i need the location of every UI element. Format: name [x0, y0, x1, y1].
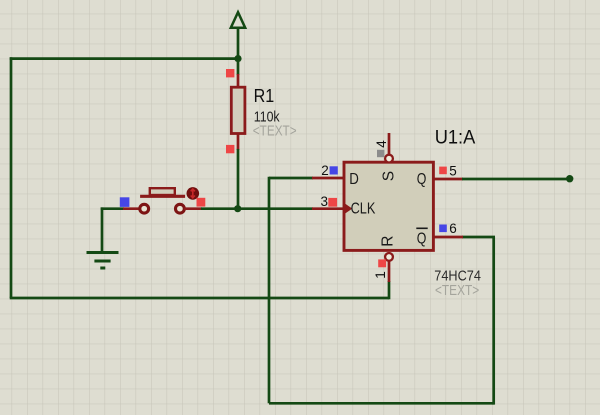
resistor R1 pin top: [237, 74, 240, 88]
resistor R1 pin bottom: [237, 134, 240, 151]
wire right loop vertical: [492, 237, 495, 405]
svg-text:R1: R1: [254, 86, 275, 106]
pin 6 Qbar stub: [433, 236, 463, 239]
svg-text:R: R: [379, 236, 396, 247]
wire R-pin vertical green segment: [388, 281, 391, 299]
state square red pin 1: [378, 259, 386, 267]
wire bottom loop horizontal: [269, 402, 494, 405]
button cap bar: [140, 195, 185, 198]
label Qbar overbar: [416, 227, 427, 229]
svg-text:<TEXT>: <TEXT>: [253, 122, 297, 139]
svg-text:2: 2: [321, 163, 329, 178]
state square red pin 3: [328, 198, 337, 207]
svg-text:CLK: CLK: [351, 201, 376, 218]
pin S bubble: [385, 155, 393, 163]
wire power vertical above junction: [237, 27, 240, 59]
button left pin: [123, 207, 141, 210]
ground symbol: [87, 253, 119, 269]
wire bottom-left horizontal to R pin: [10, 297, 389, 300]
wire button to CLK: [201, 207, 313, 210]
pin R bubble: [385, 253, 393, 261]
svg-text:<TEXT>: <TEXT>: [435, 282, 479, 299]
state square red at R1 top: [226, 69, 234, 77]
op-amp U1 body (74HC74 flip-flop): [344, 162, 433, 250]
wire R1 bottom to button row: [237, 149, 240, 209]
power symbol arrow: [231, 12, 245, 28]
pin 2 D stub: [312, 177, 344, 180]
svg-text:1: 1: [373, 271, 388, 279]
pin 5 Q stub: [433, 178, 463, 181]
node junction at power rail: [234, 55, 241, 62]
wire ground vertical drop: [101, 207, 104, 252]
svg-text:D: D: [349, 171, 359, 188]
svg-text:Q: Q: [417, 171, 427, 188]
button cap plunger: [150, 188, 175, 195]
button actuator arrow glyph: [191, 189, 195, 198]
CLK edge triangle: [344, 203, 352, 214]
svg-text:Q: Q: [417, 231, 427, 248]
svg-text:S: S: [381, 171, 398, 181]
svg-text:3: 3: [320, 194, 328, 209]
svg-text:4: 4: [374, 140, 389, 148]
pin 3 CLK stub: [312, 207, 344, 210]
wire D input horizontal green: [269, 177, 313, 180]
button left terminal: [140, 204, 149, 213]
wire top horizontal rail: [10, 57, 238, 60]
state square blue pin 2: [330, 166, 338, 174]
svg-text:6: 6: [449, 221, 457, 236]
state square red pin 5: [439, 167, 447, 175]
button right terminal: [176, 204, 185, 213]
svg-text:U1:A: U1:A: [435, 127, 476, 148]
wire Q output: [462, 178, 570, 181]
wire D loop vertical: [268, 177, 271, 404]
state square blue pin 6: [439, 225, 447, 233]
node junction at button row: [234, 205, 241, 212]
state square red at button right: [197, 198, 206, 207]
resistor R1 body: [231, 87, 245, 133]
wire Qbar to loop: [462, 236, 495, 239]
state square gray pin 4: [377, 150, 384, 157]
button right pin: [184, 207, 202, 210]
wire ground row green: [101, 207, 124, 210]
svg-text:5: 5: [449, 163, 457, 178]
pin 1 R stub: [388, 261, 391, 282]
wire left vertical rail: [10, 57, 13, 298]
wire junction to R1 top: [237, 59, 240, 75]
pin 4 S stub: [388, 133, 391, 155]
state square blue at button left: [120, 197, 130, 207]
button actuator circle: [187, 187, 200, 200]
state square red at R1 bottom: [226, 145, 234, 153]
node Q output terminal: [566, 175, 573, 182]
